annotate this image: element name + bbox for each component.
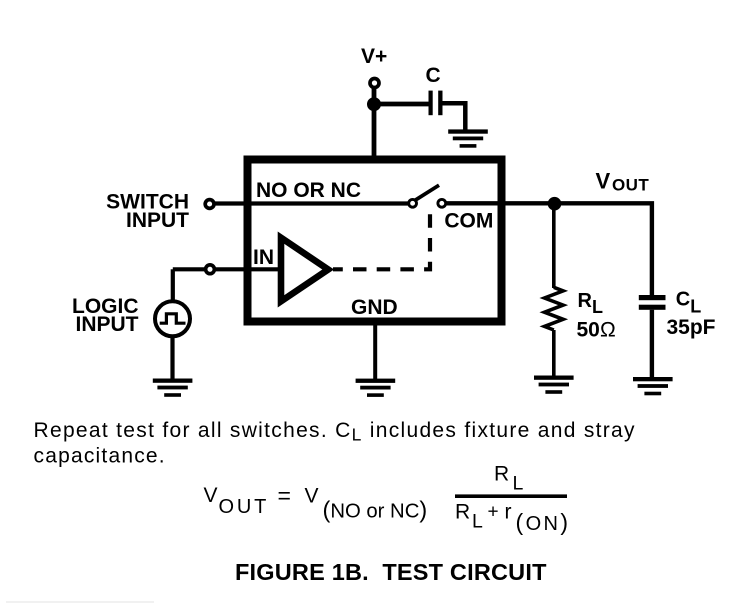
svg-text:capacitance.: capacitance.: [34, 444, 166, 467]
svg-text:C: C: [426, 64, 441, 87]
dashed link buffer to switch: [333, 214, 430, 269]
svg-text:(ON): (ON): [516, 509, 571, 535]
svg-text:(NO or NC): (NO or NC): [323, 497, 428, 523]
svg-text:+: +: [488, 502, 499, 523]
ground under capacitor CL: [633, 377, 673, 395]
svg-text:INPUT: INPUT: [76, 313, 139, 336]
svg-text:INPUT: INPUT: [126, 209, 189, 232]
wire pulse generator to ground: [170, 336, 174, 380]
wire V+ to capacitor C: [374, 102, 429, 107]
svg-text:50Ω: 50Ω: [577, 318, 617, 341]
wire output node to resistor RL: [552, 204, 556, 288]
svg-text:FIGURE 1B. TEST CIRCUIT: FIGURE 1B. TEST CIRCUIT: [235, 559, 547, 585]
wire COM to output node: [447, 203, 652, 295]
svg-text:V+: V+: [361, 45, 387, 68]
junction dot V+: [367, 97, 381, 111]
terminal V+: [370, 79, 379, 88]
svg-text:V: V: [305, 485, 319, 508]
label SWITCH INPUT: [106, 191, 189, 233]
svg-text:COM: COM: [444, 210, 493, 233]
equation VOUT: [204, 462, 571, 535]
svg-text:CL: CL: [676, 289, 701, 317]
wire GND pin: [373, 321, 377, 380]
svg-text:RL: RL: [578, 290, 603, 317]
svg-text:GND: GND: [351, 296, 398, 319]
wire logic input to buffer: [173, 267, 281, 271]
ground under DUT box: [356, 379, 396, 397]
pulse generator: [155, 301, 190, 336]
resistor RL: [545, 287, 564, 330]
switch pole contact: [409, 199, 417, 207]
svg-text:Repeat test for all switches.: Repeat test for all switches. CL include…: [34, 419, 636, 445]
ground under resistor RL: [534, 376, 574, 394]
ground under capacitor C: [448, 129, 488, 147]
wire V+ vertical: [372, 88, 377, 160]
svg-text:VOUT: VOUT: [596, 168, 650, 194]
capacitor CL: [639, 295, 666, 310]
svg-text:=: =: [278, 482, 291, 508]
svg-text:NO OR NC: NO OR NC: [256, 179, 361, 202]
wire capacitor CL to ground: [650, 310, 654, 378]
terminal logic input: [206, 265, 215, 274]
faint cropped text at bottom edge: [6, 601, 154, 603]
junction dot output node: [548, 197, 562, 211]
capacitor C: [429, 91, 443, 116]
label LOGIC INPUT: [72, 295, 139, 336]
svg-text:OUT: OUT: [219, 496, 270, 518]
svg-text:r: r: [505, 501, 512, 524]
wire logic source vertical: [171, 269, 175, 302]
switch throw contact COM: [438, 199, 446, 207]
buffer amplifier: [281, 238, 328, 302]
svg-text:35pF: 35pF: [667, 316, 716, 339]
svg-text:V: V: [204, 484, 218, 507]
svg-text:R: R: [494, 462, 509, 485]
DUT box: [248, 160, 502, 322]
wire resistor RL to ground: [552, 330, 556, 377]
svg-text:IN: IN: [253, 246, 274, 269]
ground under pulse generator: [153, 379, 193, 397]
terminal switch input: [205, 200, 214, 209]
switch lever: [416, 185, 440, 200]
wire capacitor C to ground: [443, 103, 466, 130]
wire switch input: [212, 201, 408, 205]
svg-text:L: L: [513, 472, 524, 494]
svg-text:R: R: [455, 501, 470, 524]
svg-text:L: L: [472, 510, 483, 532]
